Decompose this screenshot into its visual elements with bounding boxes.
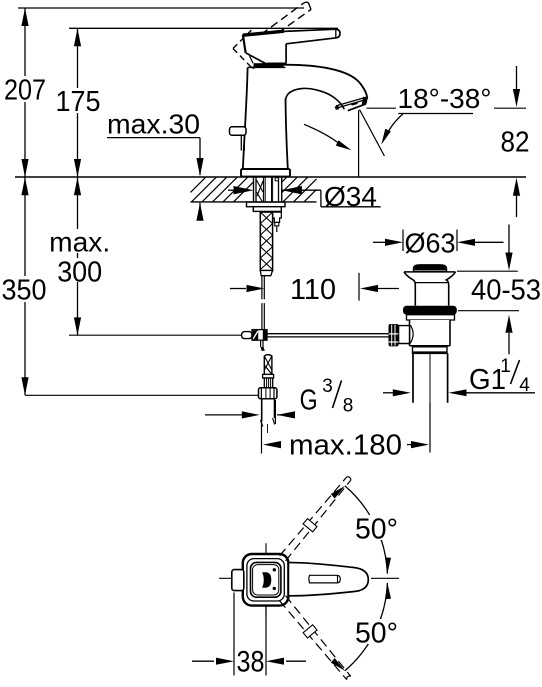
counter bottom line: [191, 201, 317, 203]
svg-text:207: 207: [4, 74, 46, 106]
faucet handle lever arm (side view): [284, 29, 340, 63]
drain body: [410, 320, 451, 346]
spout aerator tip: [335, 97, 368, 111]
svg-text:40-53: 40-53: [471, 275, 541, 307]
drain tailpipe G1 1/4: [413, 353, 448, 402]
threaded shank through counter: [256, 177, 279, 202]
supply hose collar: [263, 374, 274, 378]
svg-text:1: 1: [500, 356, 511, 377]
drain centerline tick: [429, 403, 431, 453]
spout outlet extension line down to counter: [358, 110, 360, 176]
pull rod below tee with pointed tip: [261, 340, 265, 351]
plan view: 50deg arc upper with arrows: [331, 486, 391, 574]
shank washer below counter: [247, 202, 286, 207]
braided supply shank: [260, 212, 272, 270]
dimension 40-53 (deck thickness range): [457, 225, 541, 355]
dimension 38 arrows and text: [192, 645, 306, 678]
drain rubber gasket: [403, 306, 457, 315]
plan view: handle head inner plate: [251, 562, 281, 597]
faucet cartridge cap dark band: [254, 63, 284, 67]
dimension G1 1/4 arrows: [383, 389, 535, 396]
faucet raised handle (dashed position) head outline: [233, 29, 277, 69]
dimension 175 vertical line with arrows: [54, 28, 102, 177]
svg-text:82: 82: [501, 127, 530, 159]
label 50deg lower: [355, 617, 399, 649]
dimension 350 vertical line: [1, 177, 47, 395]
dimension max.300 vertical line: [47, 177, 110, 335]
counter top surface line: [15, 176, 526, 178]
dimension diameter 34 (hole) arrows: [228, 186, 381, 207]
pull rod height extension line: [69, 334, 242, 336]
drain pop-up knob: [414, 265, 447, 272]
dimension 82 (spout height): [367, 66, 530, 217]
dimension 207 vertical line with arrows: [2, 8, 48, 177]
braided shank end collar: [260, 271, 272, 276]
G3/8 extension ticks: [262, 400, 276, 454]
faucet spout (curved): [283, 65, 367, 110]
pop-up rod guide fitting: [273, 212, 282, 232]
pop-up pull rod (vertical): [262, 276, 264, 330]
max.30 lower arrow (counter thickness): [196, 203, 203, 221]
svg-text:300: 300: [57, 256, 102, 288]
plan view: 50deg arc lower with arrows: [331, 583, 391, 671]
svg-text:max.: max.: [49, 227, 110, 258]
label G3/8: [300, 376, 354, 417]
drain centerline below tailpipe: [429, 353, 431, 403]
horizontal actuating rod to drain: [267, 334, 389, 337]
svg-text:max.30: max.30: [107, 109, 200, 140]
svg-text:4: 4: [519, 375, 530, 396]
drain pull tab on faucet: [230, 127, 247, 151]
plan view: cartridge D-profile: [262, 568, 276, 590]
faucet body outline: [243, 67, 288, 168]
plan view: centerline ticks: [219, 543, 399, 617]
svg-text:50°: 50°: [355, 617, 398, 649]
knurled adjusting knob: [389, 324, 399, 346]
label diameter 34: [324, 181, 377, 212]
drain lower ring nut: [413, 346, 448, 353]
faucet base plinth: [241, 169, 290, 177]
supply hose nut G3/8: [259, 388, 277, 399]
top extension line (max handle height): [18, 7, 304, 9]
350 datum line at hose level: [25, 394, 258, 396]
svg-text:G: G: [300, 385, 318, 417]
svg-text:3: 3: [322, 376, 333, 397]
curved leader from 18-38 label to stream line: [381, 114, 403, 145]
svg-text:175: 175: [56, 86, 101, 118]
counter hatch right of faucet shank: [282, 177, 317, 202]
dimension G3/8 arrows: [205, 411, 295, 418]
plan view: handle head outer: [243, 554, 289, 606]
plan view: front tab: [232, 570, 244, 591]
svg-text:110: 110: [290, 274, 336, 306]
extension line 175 (handle top): [69, 27, 338, 29]
label max.30 with leader arrow to counter top: [107, 109, 204, 176]
svg-text:350: 350: [2, 274, 47, 306]
dimension 38 extension lines: [234, 593, 266, 676]
plan view: lever arm: [288, 563, 368, 596]
pull rod end cap: [242, 332, 252, 339]
svg-text:Ø34: Ø34: [324, 181, 377, 212]
supply hose below nut with break: [260, 399, 274, 433]
dimension max.180: [263, 429, 429, 461]
shank locknut: [253, 207, 281, 212]
svg-text:8: 8: [343, 396, 354, 417]
mounting hole edges in counter: [254, 177, 282, 202]
plan view: dashed lever lower 50deg: [280, 596, 351, 680]
drain tee inlet pipe: [399, 326, 410, 344]
pull rod clamp tee: [252, 330, 267, 341]
dimension diameter 63 (flange): [373, 228, 504, 259]
drain flange (trumpet): [404, 272, 456, 306]
supply hose braided section: [264, 355, 272, 375]
supply hose ribbed section: [264, 378, 272, 388]
label 18deg-38deg with underline: [398, 83, 492, 114]
svg-text:50°: 50°: [355, 513, 398, 545]
label G1 1/4: [469, 356, 530, 396]
dimension 110 (spout reach): [230, 273, 399, 306]
svg-text:38: 38: [237, 645, 265, 678]
svg-text:Ø63: Ø63: [405, 228, 456, 259]
curved leader arrow to spout extension line: [304, 124, 351, 150]
water stream direction line: [360, 110, 385, 157]
faucet raised handle (dashed position) lever lines: [261, 2, 311, 40]
faucet handle head (side view): [243, 31, 286, 64]
svg-text:max.180: max.180: [289, 429, 402, 461]
plan view: dashed lever upper 50deg: [280, 477, 351, 561]
counter hatch left of faucet shank: [191, 177, 254, 202]
svg-text:18°-38°: 18°-38°: [398, 83, 492, 114]
drain locking collar: [407, 315, 455, 320]
label 50deg upper: [355, 513, 399, 545]
